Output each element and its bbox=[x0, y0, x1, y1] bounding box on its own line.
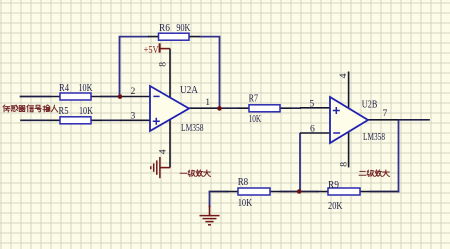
svg-text:8: 8 bbox=[339, 162, 350, 167]
svg-text:8: 8 bbox=[157, 62, 168, 67]
svg-text:10K: 10K bbox=[79, 83, 93, 94]
svg-text:R6: R6 bbox=[159, 23, 170, 34]
svg-text:R8: R8 bbox=[238, 177, 249, 188]
svg-text:10K: 10K bbox=[238, 198, 253, 209]
svg-text:20K: 20K bbox=[328, 201, 343, 212]
svg-text:10K: 10K bbox=[79, 106, 93, 117]
svg-text:3: 3 bbox=[131, 111, 136, 122]
svg-text:LM358: LM358 bbox=[363, 132, 385, 143]
svg-text:10K: 10K bbox=[249, 114, 262, 125]
svg-text:4: 4 bbox=[338, 73, 349, 78]
svg-text:R9: R9 bbox=[328, 180, 339, 191]
svg-text:LM358: LM358 bbox=[181, 123, 204, 134]
svg-text:2: 2 bbox=[131, 86, 136, 97]
svg-text:90K: 90K bbox=[176, 23, 190, 34]
svg-text:R7: R7 bbox=[249, 94, 259, 105]
svg-text:6: 6 bbox=[310, 124, 315, 135]
svg-text:R5: R5 bbox=[59, 106, 69, 117]
svg-text:U2B: U2B bbox=[362, 99, 378, 110]
svg-text:R4: R4 bbox=[59, 83, 70, 94]
svg-text:+5V: +5V bbox=[144, 45, 159, 56]
svg-text:4: 4 bbox=[158, 149, 169, 154]
svg-text:7: 7 bbox=[383, 108, 388, 119]
svg-text:1: 1 bbox=[205, 97, 210, 108]
svg-text:5: 5 bbox=[309, 98, 314, 109]
svg-text:U2A: U2A bbox=[180, 85, 198, 96]
